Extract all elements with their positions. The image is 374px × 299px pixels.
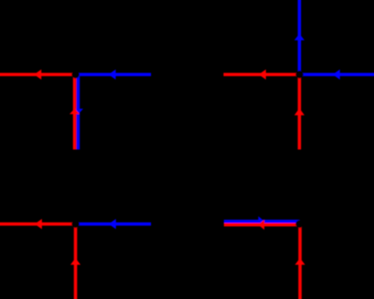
wire: blue south link of node TL (downward flux) with down arrow (73, 75, 83, 150)
node BL (lattice site, black dot) (72, 220, 80, 228)
wire: red west link of node TL with left arrow (0, 69, 76, 79)
wire: red south link of node TL (upward flux) with up arrow (70, 75, 80, 150)
wire: red south link of node TR with up arrow (294, 75, 304, 150)
wire: blue west link of node BR (rightward flux) with right arrow (224, 216, 300, 226)
wire: blue east link of node TL with left arrow (76, 69, 152, 79)
wire: red west link of node BR (leftward flux) with left arrow (224, 220, 300, 230)
wire: blue east link of node BL with left arrow (76, 219, 152, 229)
wire: red south link of node BL with up arrow (70, 224, 80, 299)
wire: blue north link of node TR with up arrow (294, 0, 304, 75)
wire: red west link of node TR with left arrow (224, 69, 300, 79)
wire: blue east link of node TR with left arrow (300, 69, 374, 79)
node TR (lattice site, black dot) (296, 71, 304, 79)
wire: red west link of node BL with left arrow (0, 219, 76, 229)
wire: red south link of node BR with up arrow (295, 224, 305, 299)
node BR (lattice site, black dot) (296, 220, 304, 228)
node TL (lattice site, black dot) (72, 71, 80, 79)
